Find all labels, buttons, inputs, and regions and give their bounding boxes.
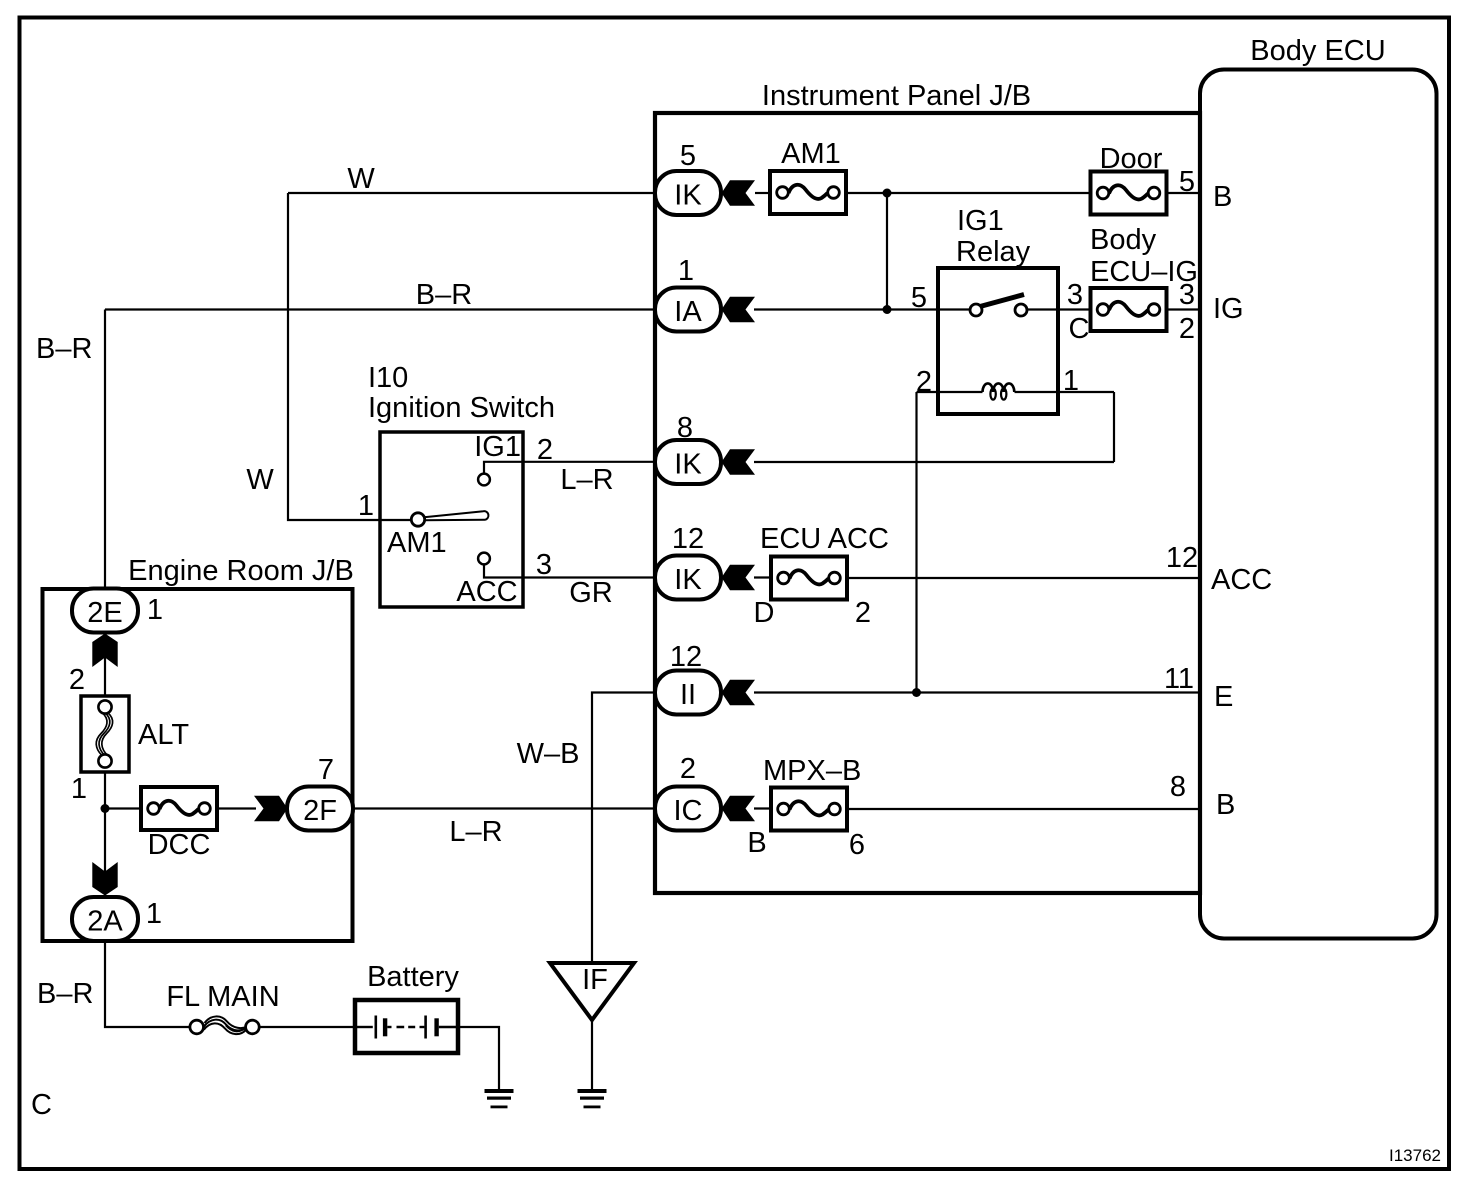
svg-text:7: 7 xyxy=(318,754,334,786)
svg-text:GR: GR xyxy=(569,577,613,609)
svg-text:AM1: AM1 xyxy=(387,527,447,559)
svg-text:E: E xyxy=(1214,681,1233,713)
ground IF xyxy=(578,1089,607,1108)
arrow into IC xyxy=(722,796,756,821)
fuse DCC xyxy=(141,787,217,830)
Engine Room J/B box xyxy=(43,589,353,941)
Instrument Panel J/B box xyxy=(655,113,1200,893)
wire arrow to ECU ACC fuse xyxy=(754,576,771,578)
svg-text:L–R: L–R xyxy=(449,816,502,848)
fusible link FL MAIN xyxy=(190,1016,259,1034)
svg-text:1: 1 xyxy=(678,255,694,287)
connector IK pin 5 xyxy=(655,171,721,215)
svg-text:11: 11 xyxy=(1164,663,1194,695)
connector IA pin 1 xyxy=(655,288,721,332)
svg-text:2: 2 xyxy=(69,664,85,696)
svg-text:12: 12 xyxy=(672,523,704,555)
svg-text:1: 1 xyxy=(358,490,374,522)
wire arrow to MPX-B fuse xyxy=(754,807,771,809)
wire B-R horizontal xyxy=(105,308,655,310)
svg-text:1: 1 xyxy=(146,898,162,930)
svg-text:Body ECU: Body ECU xyxy=(1250,35,1385,67)
svg-text:3: 3 xyxy=(536,549,552,581)
svg-text:B–R: B–R xyxy=(416,279,472,311)
svg-text:3: 3 xyxy=(1067,279,1083,311)
svg-text:2: 2 xyxy=(1179,313,1195,345)
svg-text:AM1: AM1 xyxy=(781,138,841,170)
svg-text:8: 8 xyxy=(677,412,693,444)
ignition switch lever xyxy=(424,511,488,520)
svg-text:B: B xyxy=(747,827,766,859)
wire ACC contact to IK12 xyxy=(484,564,655,578)
junction top row xyxy=(883,189,892,198)
svg-text:FL MAIN: FL MAIN xyxy=(166,981,279,1013)
svg-text:12: 12 xyxy=(670,641,702,673)
wire Door fuse to ECU xyxy=(1167,192,1201,194)
ignition switch IG1 contact xyxy=(478,474,490,486)
svg-text:ECU ACC: ECU ACC xyxy=(760,523,889,555)
svg-text:5: 5 xyxy=(911,282,927,314)
connector 2E pin 1 xyxy=(72,589,138,633)
svg-text:W–B: W–B xyxy=(517,738,580,770)
svg-text:IA: IA xyxy=(674,296,702,328)
svg-text:2F: 2F xyxy=(303,795,337,827)
svg-text:12: 12 xyxy=(1166,542,1198,574)
connector 2F pin 7 xyxy=(287,787,353,831)
svg-text:B: B xyxy=(1216,789,1235,821)
svg-text:ACC: ACC xyxy=(1211,564,1272,596)
svg-text:W: W xyxy=(347,163,375,195)
svg-text:IK: IK xyxy=(674,180,702,212)
junction B-R row xyxy=(883,305,892,314)
wire relay pin1 down to IK8 row xyxy=(1113,392,1115,462)
svg-text:1: 1 xyxy=(147,594,163,626)
battery xyxy=(355,1000,458,1053)
ignition switch ACC contact xyxy=(478,553,490,565)
wire MPX-B fuse to ECU xyxy=(847,808,1201,810)
wire FL MAIN to battery xyxy=(259,1026,357,1028)
junction DCC xyxy=(101,804,110,813)
wire fuse to ECU IG xyxy=(1167,308,1201,310)
wire L-R from 2F to IC xyxy=(353,807,655,809)
fuse Body ECU-IG xyxy=(1091,288,1167,331)
svg-text:ALT: ALT xyxy=(138,719,189,751)
wire IG1 contact to IK8 xyxy=(484,462,655,474)
fuse MPX-B xyxy=(771,788,847,831)
svg-text:IC: IC xyxy=(674,795,703,827)
wire DCC fuse to arrow xyxy=(217,807,256,809)
arrow into IK5 xyxy=(722,180,756,205)
arrow down into 2A xyxy=(92,862,117,896)
relay IG1 box xyxy=(938,268,1058,414)
svg-text:Ignition Switch: Ignition Switch xyxy=(368,392,555,424)
svg-text:I13762: I13762 xyxy=(1389,1146,1441,1165)
relay coil wire xyxy=(917,391,1115,393)
connector IK pin 8 xyxy=(655,440,721,484)
svg-text:2E: 2E xyxy=(87,597,122,629)
ground connector IF triangle xyxy=(550,963,634,1020)
svg-text:B: B xyxy=(1213,181,1232,213)
wire battery to ground xyxy=(458,1027,499,1089)
arrow right into 2F xyxy=(254,796,288,821)
wire W vertical xyxy=(288,193,412,520)
svg-text:ACC: ACC xyxy=(456,576,517,608)
relay switch contacts xyxy=(970,295,1090,317)
wire B-R vertical left xyxy=(104,310,106,592)
svg-text:C: C xyxy=(31,1089,52,1121)
relay coil xyxy=(983,383,1015,399)
svg-text:IK: IK xyxy=(674,564,702,596)
svg-text:Body: Body xyxy=(1090,224,1157,256)
svg-text:IG1: IG1 xyxy=(474,431,521,463)
arrow into IK8 xyxy=(722,449,756,474)
wire IK8 arrow to relay pin1 xyxy=(754,461,1114,463)
wire arrow to AM1 fuse xyxy=(755,192,770,194)
svg-text:IG1: IG1 xyxy=(957,205,1004,237)
arrow up into 2E xyxy=(92,634,117,668)
svg-text:B–R: B–R xyxy=(36,333,92,365)
svg-text:Instrument Panel J/B: Instrument Panel J/B xyxy=(762,80,1031,112)
svg-text:1: 1 xyxy=(71,773,87,805)
svg-text:2: 2 xyxy=(680,753,696,785)
svg-text:Relay: Relay xyxy=(956,236,1031,268)
wire junction to DCC fuse xyxy=(105,807,141,809)
svg-text:II: II xyxy=(680,679,696,711)
wire arrow to relay xyxy=(754,308,970,310)
fusible link ALT xyxy=(81,696,129,772)
svg-text:C: C xyxy=(1069,313,1090,345)
connector IK pin 12 xyxy=(655,556,721,600)
wire junction down xyxy=(886,193,888,310)
fuse AM1 xyxy=(770,171,846,214)
ignition switch pivot contact xyxy=(411,513,424,526)
svg-text:D: D xyxy=(754,597,775,629)
svg-text:Engine Room J/B: Engine Room J/B xyxy=(128,555,354,587)
svg-text:W: W xyxy=(246,464,274,496)
svg-text:B–R: B–R xyxy=(37,978,93,1010)
junction E row xyxy=(912,688,921,697)
connector 2A pin 1 xyxy=(72,897,138,941)
svg-text:3: 3 xyxy=(1179,279,1195,311)
svg-text:5: 5 xyxy=(680,140,696,172)
wire IF to ground xyxy=(591,1020,593,1089)
fuse ECU ACC xyxy=(771,557,847,600)
svg-text:2: 2 xyxy=(855,597,871,629)
svg-text:IG: IG xyxy=(1213,293,1244,325)
svg-text:I10: I10 xyxy=(368,362,408,394)
svg-text:IF: IF xyxy=(582,964,608,996)
arrow into II xyxy=(722,680,756,705)
connector IC pin 2 xyxy=(655,787,721,831)
wire ECU ACC fuse to ECU xyxy=(847,577,1201,579)
wire vertical engine room xyxy=(104,631,106,897)
wire 2A down to FL MAIN row xyxy=(105,941,190,1027)
wire AM1 fuse to Door fuse xyxy=(846,192,1090,194)
wire II to W-B vertical xyxy=(592,693,655,964)
svg-text:2: 2 xyxy=(916,366,932,398)
wire W horizontal top xyxy=(288,192,656,194)
wire arrow to ECU E xyxy=(754,691,1201,693)
wire relay pin2 down to E row xyxy=(915,392,917,693)
svg-text:2A: 2A xyxy=(87,906,123,938)
ignition switch I10 box xyxy=(380,432,523,607)
arrow into IK12 xyxy=(722,565,756,590)
Body ECU box xyxy=(1200,70,1437,939)
svg-text:Door: Door xyxy=(1100,143,1163,175)
ground battery xyxy=(485,1089,514,1108)
svg-text:DCC: DCC xyxy=(148,829,211,861)
connector II pin 12 xyxy=(655,671,721,715)
svg-text:L–R: L–R xyxy=(560,464,613,496)
fuse Door xyxy=(1091,172,1167,215)
svg-text:IK: IK xyxy=(674,449,702,481)
svg-text:6: 6 xyxy=(849,829,865,861)
svg-text:MPX–B: MPX–B xyxy=(763,755,861,787)
svg-text:Battery: Battery xyxy=(367,961,459,993)
svg-text:8: 8 xyxy=(1170,771,1186,803)
arrow into IA xyxy=(722,297,756,322)
